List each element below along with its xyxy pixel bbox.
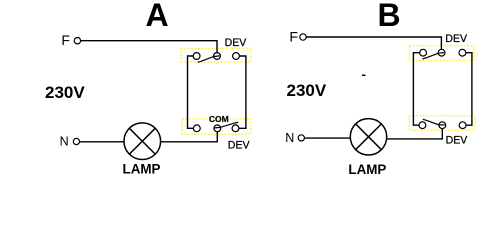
- wire DEV1 left to DEV2 left (circuit A): [188, 56, 194, 128]
- terminal F (circuit A): [74, 38, 80, 44]
- svg-text:230V: 230V: [45, 83, 85, 102]
- DEV2 terminal left: [193, 125, 200, 132]
- svg-text:A: A: [145, 0, 168, 33]
- DEV1 terminal left: [193, 53, 200, 60]
- DEV2 terminal common (middle): [214, 125, 221, 132]
- switch DEV2 box (circuit A bottom): [182, 119, 251, 134]
- DEV3 terminal common (middle): [438, 49, 445, 56]
- switch DEV3 box (circuit B top): [409, 46, 474, 60]
- svg-text:DEV: DEV: [445, 33, 468, 45]
- wire F to DEV3 common (circuit B): [306, 37, 441, 49]
- wire DEV1 right to DEV2 right (circuit A): [239, 56, 246, 128]
- svg-text:N: N: [285, 131, 294, 145]
- wire DEV4 common to lamp (circuit B): [387, 129, 442, 139]
- switch DEV1 box (circuit A top): [181, 48, 251, 62]
- DEV4 terminal left: [419, 122, 426, 129]
- DEV1 switch lever: [198, 56, 220, 62]
- svg-text:N: N: [60, 135, 69, 149]
- wire DEV3 left to DEV4 left (circuit B): [413, 53, 419, 126]
- svg-text:DEV: DEV: [228, 139, 251, 151]
- terminal N (circuit A): [73, 138, 79, 144]
- DEV2 switch lever: [214, 122, 238, 128]
- DEV3 switch lever: [422, 53, 444, 59]
- svg-text:DEV: DEV: [446, 134, 469, 146]
- svg-text:LAMP: LAMP: [123, 161, 161, 176]
- DEV2 terminal right: [232, 125, 239, 132]
- DEV3 terminal right: [459, 49, 466, 56]
- svg-text:230V: 230V: [287, 81, 327, 100]
- DEV4 switch lever: [423, 119, 445, 125]
- svg-text:LAMP: LAMP: [348, 162, 386, 177]
- svg-text:DEV: DEV: [225, 37, 248, 49]
- stray dash mark: [362, 75, 365, 77]
- lamp (circuit A): [124, 123, 161, 160]
- DEV4 terminal common (middle): [439, 122, 446, 129]
- wire DEV3 right to DEV4 right (circuit B): [466, 53, 472, 126]
- terminal N (circuit B): [298, 135, 304, 141]
- lamp (circuit B): [350, 119, 386, 155]
- svg-text:COM: COM: [209, 114, 229, 124]
- wire DEV2 common to lamp (circuit A): [161, 132, 217, 142]
- DEV3 terminal left: [420, 49, 427, 56]
- terminal F (circuit B): [300, 34, 306, 40]
- DEV1 terminal right: [233, 53, 240, 60]
- DEV4 terminal right: [459, 122, 466, 129]
- wire F to DEV1 common (circuit A): [81, 41, 217, 53]
- svg-text:B: B: [377, 0, 400, 33]
- svg-text:F: F: [289, 29, 298, 45]
- wire N to lamp (circuit A): [80, 141, 125, 143]
- svg-text:F: F: [61, 32, 70, 48]
- DEV1 terminal common (middle): [214, 53, 221, 60]
- switch DEV4 box (circuit B bottom): [409, 116, 475, 130]
- wire N to lamp (circuit B): [305, 137, 351, 139]
